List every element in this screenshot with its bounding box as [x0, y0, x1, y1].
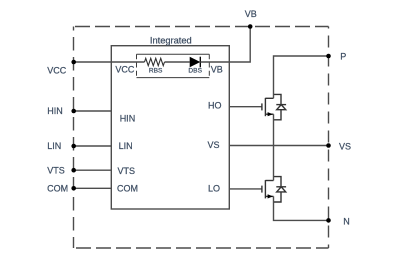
bootstrap components box (dashed sides)	[137, 54, 210, 77]
node VTS junction dot	[71, 168, 76, 173]
svg-text:VB: VB	[245, 9, 257, 19]
wire HIN	[74, 110, 112, 112]
wire RBS to DBS	[165, 61, 190, 63]
svg-text:VCC: VCC	[47, 66, 67, 76]
svg-text:VCC: VCC	[115, 65, 135, 75]
wire LIN	[74, 145, 112, 147]
IC U1 Integrated box	[111, 46, 229, 209]
node COM junction dot	[71, 186, 76, 191]
wire DBS to node VB	[200, 27, 250, 63]
svg-text:HO: HO	[208, 100, 222, 110]
wire VS (IC to node VS)	[229, 145, 328, 147]
resistor RBS	[145, 58, 165, 65]
svg-text:HIN: HIN	[47, 106, 63, 116]
wire LO (gate of Q2)	[229, 188, 262, 190]
svg-text:COM: COM	[47, 184, 68, 194]
wire COM	[74, 187, 112, 189]
wire VTS	[74, 169, 112, 171]
svg-text:VS: VS	[339, 142, 351, 152]
node VCC junction dot	[71, 60, 76, 65]
wire Q1 drain to node P	[274, 56, 329, 98]
wire Q1 source to VS line	[273, 114, 275, 145]
svg-text:P: P	[340, 51, 346, 61]
wire Q2 source to node N	[274, 196, 329, 220]
node P junction dot	[326, 54, 331, 59]
svg-text:VTS: VTS	[47, 166, 65, 176]
svg-text:COM: COM	[117, 184, 138, 194]
svg-text:RBS: RBS	[149, 67, 163, 74]
svg-text:LO: LO	[208, 184, 220, 194]
svg-text:VS: VS	[208, 140, 220, 150]
svg-text:VB: VB	[211, 65, 223, 75]
node N junction dot	[326, 218, 331, 223]
node HIN junction dot	[71, 109, 76, 114]
wire VCC (node VCC to resistor RBS)	[74, 61, 145, 63]
svg-text:LIN: LIN	[47, 141, 61, 151]
svg-text:N: N	[343, 216, 350, 226]
svg-text:DBS: DBS	[188, 67, 202, 74]
node VS junction dot	[326, 143, 331, 148]
wire Q2 drain to VS line	[273, 146, 275, 181]
wire HO (gate of Q1)	[229, 106, 262, 108]
svg-text:LIN: LIN	[119, 141, 133, 151]
diode DBS	[190, 57, 201, 68]
transistor Q1 (high-side MOSFET)	[262, 94, 286, 119]
node VB junction dot	[248, 24, 253, 29]
svg-text:VTS: VTS	[118, 166, 136, 176]
node LIN junction dot	[71, 144, 76, 149]
svg-text:HIN: HIN	[120, 114, 136, 124]
module boundary (dashed)	[74, 27, 329, 249]
svg-text:Integrated: Integrated	[150, 36, 192, 46]
transistor Q2 (low-side MOSFET)	[262, 177, 286, 202]
